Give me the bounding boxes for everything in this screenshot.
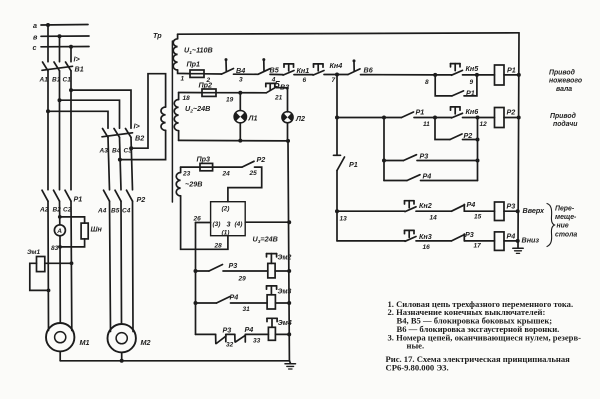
svg-text:Р3: Р3 bbox=[229, 261, 238, 270]
lamp return rail bbox=[179, 139, 290, 142]
ground symbol bottom bbox=[289, 361, 290, 364]
junction on phase b bbox=[58, 34, 62, 38]
junction aux column left bbox=[382, 116, 386, 120]
wire P4 row segment bbox=[421, 180, 478, 182]
electromagnet Em3 bbox=[267, 295, 275, 309]
node 13 bbox=[335, 209, 339, 213]
wire Em3 row segment bbox=[231, 302, 268, 304]
circuit breaker B1 tie bar bbox=[42, 66, 73, 70]
junction P3 row right bbox=[476, 159, 480, 163]
contact P3 NC in Kn3 row bbox=[452, 235, 465, 241]
junction coil P4 rail bbox=[516, 239, 520, 243]
wire row1 segment bbox=[270, 73, 283, 75]
wire to rectifier input top bbox=[228, 167, 262, 202]
transformer core bbox=[171, 41, 173, 202]
contact P3 in Em2 row bbox=[209, 265, 223, 272]
svg-text:29: 29 bbox=[238, 276, 247, 283]
limit switch B4 bbox=[225, 58, 228, 61]
wire C1 feed to B2 bbox=[71, 90, 131, 128]
svg-text:23: 23 bbox=[182, 171, 191, 178]
dc right rail bbox=[288, 141, 289, 361]
contactor P1 main pole 3 bbox=[65, 190, 71, 201]
wire Em2 row bbox=[196, 270, 210, 272]
wire motor M2 lead C bbox=[132, 201, 135, 331]
contact P1 self-hold bbox=[452, 91, 464, 96]
rectifier bridge U3 bbox=[211, 202, 246, 236]
wire shunt branch bbox=[60, 217, 85, 223]
wire M1 to bottom rail bbox=[59, 351, 61, 360]
junction lamp L1 bbox=[238, 91, 242, 95]
junction Em1 bottom bbox=[47, 289, 51, 293]
svg-text:18: 18 bbox=[183, 95, 191, 102]
electromagnet Em2 bbox=[268, 263, 275, 278]
door switch B3 bbox=[266, 82, 275, 84]
svg-text:Л1: Л1 bbox=[248, 114, 258, 123]
aux column right vertical bbox=[477, 140, 479, 181]
svg-text:(1): (1) bbox=[222, 230, 230, 237]
wire phase a drop bbox=[47, 25, 49, 62]
node 12 bbox=[476, 116, 480, 120]
wire column C3 below B2 bbox=[131, 137, 133, 190]
phase bus a bbox=[41, 24, 88, 27]
dc left rail bbox=[195, 223, 197, 335]
circuit breaker B2 tie bar bbox=[102, 133, 133, 137]
svg-text:9: 9 bbox=[470, 79, 474, 86]
wire coil P3 to rail bbox=[504, 210, 518, 212]
svg-text:Р4: Р4 bbox=[245, 325, 254, 334]
transformer secondary winding U1 bbox=[173, 39, 177, 70]
wire row1 to node 8 bbox=[361, 74, 436, 76]
svg-text:Эм2: Эм2 bbox=[278, 255, 292, 262]
svg-text:В5: В5 bbox=[270, 65, 280, 74]
junction on phase a bbox=[46, 23, 50, 27]
wire column A below B1 bbox=[47, 71, 49, 190]
contact P1 on rail bbox=[334, 154, 341, 156]
svg-text:21: 21 bbox=[274, 94, 283, 101]
bottom rail bbox=[60, 360, 289, 362]
wire P3 row bbox=[384, 160, 404, 162]
wire lamp L2 bottom bbox=[287, 123, 289, 141]
wire coil P4 to rail bbox=[504, 240, 518, 242]
svg-text:Кн4: Кн4 bbox=[330, 61, 343, 70]
contact P3 in Em4 row bbox=[215, 334, 217, 343]
fuse Pr2 bbox=[202, 89, 216, 96]
wire Kn3 row bbox=[337, 240, 405, 242]
wire motor M1 lead C bbox=[70, 201, 73, 330]
relay coil P3 bbox=[495, 202, 505, 221]
wire P1 self-hold return bbox=[464, 75, 477, 96]
contact P2 self-hold bbox=[450, 134, 462, 140]
svg-text:Р3: Р3 bbox=[223, 326, 232, 335]
svg-text:32: 32 bbox=[226, 342, 234, 349]
node 11 bbox=[433, 116, 437, 120]
svg-text:Кн1: Кн1 bbox=[297, 66, 310, 75]
wire motor M1 lead A bbox=[47, 201, 50, 330]
junction A1 to B2 feed bbox=[46, 109, 50, 113]
junction Em4 rail bbox=[287, 332, 291, 336]
junction C1 to B2 feed bbox=[69, 88, 73, 92]
svg-text:Тр: Тр bbox=[153, 31, 162, 40]
electromagnet Em4 bbox=[268, 327, 275, 340]
fuse Pr3 bbox=[200, 163, 213, 170]
wire motor M2 lead B bbox=[120, 201, 123, 324]
svg-text:Пр1: Пр1 bbox=[187, 60, 201, 69]
pushbutton Kn5 bbox=[451, 63, 461, 65]
wire P1 self-hold branch bbox=[435, 75, 452, 96]
wire Em3 to rail bbox=[275, 302, 289, 304]
wire 29V top tap bbox=[181, 166, 200, 168]
wire phase b drop bbox=[59, 36, 61, 62]
junction C3 to transformer bbox=[129, 146, 133, 150]
transformer secondary winding 29V bbox=[176, 173, 180, 196]
limit switch B5 bbox=[262, 58, 265, 61]
junction aux column right bbox=[476, 138, 480, 142]
wire U1 winding bottom to fuse row bbox=[178, 70, 190, 74]
svg-text:Кн5: Кн5 bbox=[466, 64, 480, 73]
contact P4 row bbox=[407, 175, 420, 181]
svg-text:U2~24В: U2~24В bbox=[185, 104, 210, 115]
wire P2 self-hold branch bbox=[435, 118, 450, 140]
svg-text:Л2: Л2 bbox=[295, 114, 305, 123]
circuit breaker B2 pole 3 bbox=[126, 129, 132, 138]
junction Em3 row left bbox=[194, 301, 198, 305]
wire to coil P4 bbox=[464, 240, 494, 242]
contact P1 in row2 bbox=[402, 112, 414, 118]
circuit breaker B2 pole 1 bbox=[103, 129, 109, 138]
wire motor M1 lead B lower bbox=[59, 236, 61, 323]
shunt Shn bbox=[81, 223, 88, 239]
svg-text:28: 28 bbox=[214, 243, 223, 250]
relay coil P2 bbox=[495, 108, 505, 128]
wire row1 segment bbox=[294, 74, 313, 76]
svg-text:33: 33 bbox=[253, 338, 261, 345]
wire U1 winding top to rail bbox=[177, 34, 179, 39]
contactor P2 main pole 2 bbox=[115, 190, 121, 201]
left relay rail upper bbox=[336, 75, 338, 156]
wire P3 row segment bbox=[417, 160, 478, 162]
circuit breaker B2 pole 2 bbox=[114, 129, 120, 138]
svg-text:U1~110В: U1~110В bbox=[184, 46, 213, 57]
brace table movement bbox=[547, 204, 555, 247]
right rail bbox=[518, 33, 519, 248]
wire column C below B1 bbox=[70, 71, 72, 190]
wire P4 row bbox=[384, 180, 407, 182]
wire shunt branch return bbox=[60, 239, 85, 247]
svg-text:24: 24 bbox=[222, 171, 231, 178]
lamp L1 bbox=[234, 111, 246, 123]
limit switch B6 bbox=[353, 59, 356, 62]
junction B4 to transformer bbox=[118, 158, 122, 162]
wire Kn3 row segment bbox=[416, 240, 452, 242]
wire motor M1 lead B upper bbox=[59, 201, 61, 225]
svg-text:Эм3: Эм3 bbox=[278, 289, 292, 296]
svg-text:6: 6 bbox=[303, 77, 307, 84]
junction shunt bottom bbox=[58, 245, 62, 249]
wire row1 segment bbox=[435, 74, 451, 76]
svg-text:(4): (4) bbox=[235, 221, 243, 228]
wire column B below B1 (to ammeter) bbox=[59, 71, 61, 190]
circuit breaker B1 pole 1 bbox=[43, 62, 49, 71]
contact P3 row bbox=[404, 155, 417, 161]
wire Em4 row segment bbox=[245, 333, 268, 335]
svg-text:19: 19 bbox=[226, 97, 234, 104]
svg-text:(3): (3) bbox=[213, 221, 221, 228]
junction Em1 top bbox=[70, 261, 74, 265]
contactor P2 main pole 3 bbox=[127, 190, 133, 201]
wire primary to B4 bbox=[120, 130, 166, 159]
wire Em1 branch lower bbox=[30, 263, 49, 290]
junction coil P2 rail bbox=[517, 116, 521, 120]
wire motor M2 lead A bbox=[110, 201, 111, 331]
pushbutton Kn4 bbox=[314, 63, 324, 65]
wire phase c drop bbox=[70, 47, 72, 62]
svg-text:26: 26 bbox=[193, 216, 202, 223]
wire B3 to lamp L2 bbox=[277, 88, 288, 112]
svg-text:3: 3 bbox=[239, 77, 243, 84]
wire row2 to coil bbox=[463, 117, 495, 119]
pushbutton Kn3 bbox=[405, 229, 415, 231]
wire B1 feed to B2 bbox=[60, 100, 120, 128]
contactor P2 main pole 1 bbox=[104, 190, 110, 201]
junction dc plus rail bbox=[287, 220, 291, 224]
contactor P1 main pole 2 bbox=[54, 190, 60, 201]
wire Em4 row left bbox=[196, 333, 216, 335]
circuit breaker B1 pole 3 bbox=[66, 62, 72, 71]
svg-text:U3=24В: U3=24В bbox=[253, 235, 278, 246]
wire Kn2 row bbox=[337, 210, 405, 212]
svg-text:3: 3 bbox=[227, 220, 231, 229]
wire rectifier minus output bbox=[196, 222, 211, 224]
svg-text:1: 1 bbox=[181, 76, 185, 83]
wire Em4 to rail bbox=[275, 333, 289, 335]
svg-text:Р2: Р2 bbox=[257, 155, 266, 164]
ammeter A bbox=[54, 225, 65, 236]
contactor P1 main pole 1 bbox=[42, 190, 48, 201]
wire Em1 branch upper bbox=[45, 262, 72, 264]
pushbutton Kn2 bbox=[405, 200, 415, 202]
motor M2 bbox=[108, 324, 136, 352]
phase bus c bbox=[41, 46, 89, 48]
wire 29V winding bottom to rectifier bbox=[181, 196, 228, 249]
wire rectifier plus output bbox=[245, 221, 289, 223]
circuit breaker B1 pole 2 bbox=[54, 62, 60, 71]
svg-text:8: 8 bbox=[425, 79, 429, 86]
junction B1 to B2 feed bbox=[58, 98, 62, 102]
wire Em2 row segment bbox=[223, 270, 268, 272]
junction on phase c bbox=[69, 45, 73, 49]
wire to lamp L1 bbox=[239, 93, 241, 111]
wire M2 to bottom rail bbox=[121, 352, 123, 360]
svg-text:Р1: Р1 bbox=[507, 66, 516, 75]
wire row2 segment bbox=[216, 92, 266, 94]
svg-text:Р4: Р4 bbox=[230, 293, 239, 302]
svg-text:Пр2: Пр2 bbox=[199, 81, 213, 90]
wire segment to P2 contact bbox=[213, 166, 242, 168]
wire P2 self-hold return bbox=[463, 118, 478, 140]
relay coil P1 bbox=[495, 65, 505, 85]
wire Em3 row bbox=[196, 302, 217, 304]
electromagnet Em1 bbox=[37, 257, 45, 272]
pushbutton Kn6 bbox=[451, 106, 461, 108]
aux column left vertical bbox=[383, 118, 385, 181]
wire to coil P3 bbox=[464, 210, 494, 212]
wire U2 top tap bbox=[179, 92, 202, 94]
junction shunt top bbox=[58, 215, 62, 219]
contact P4 in Em4 row bbox=[234, 334, 236, 341]
junction P3 row left bbox=[382, 159, 386, 163]
ground symbol right rail bbox=[513, 247, 523, 249]
pushbutton Kn1 bbox=[284, 63, 294, 65]
svg-text:Эм4: Эм4 bbox=[278, 320, 292, 327]
wire column B4 below B2 bbox=[120, 137, 122, 190]
node 8 bbox=[433, 73, 437, 77]
wire coil P2 to rail bbox=[504, 117, 519, 119]
wire row1 segment bbox=[324, 74, 348, 76]
junction coil P3 rail bbox=[516, 209, 520, 213]
wire Kn2 row segment bbox=[416, 210, 452, 212]
wire coil P1 to rail bbox=[504, 74, 519, 76]
junction coil P1 rail bbox=[517, 73, 521, 77]
wire between contacts bbox=[226, 333, 235, 335]
lamp L2 bbox=[282, 112, 293, 123]
motor M1 bbox=[46, 323, 74, 351]
transformer primary winding bbox=[161, 107, 166, 130]
node 9 bbox=[475, 73, 479, 77]
top rail 110V bbox=[178, 33, 519, 34]
junction M2 bottom bbox=[120, 359, 124, 363]
wire row2 segment bbox=[414, 117, 452, 119]
junction row2 left bbox=[335, 116, 339, 120]
relay coil P4 bbox=[495, 232, 505, 251]
wire A1 feed to B2 bbox=[48, 111, 108, 128]
junction Em2 row left bbox=[194, 269, 198, 273]
wire row1 segment bbox=[234, 73, 259, 75]
junction Em2 rail bbox=[287, 269, 291, 273]
svg-text:~29В: ~29В bbox=[185, 180, 202, 189]
transformer secondary winding U2 bbox=[174, 100, 178, 131]
svg-text:(2): (2) bbox=[222, 206, 230, 213]
junction L2 return / dc riser bbox=[286, 139, 290, 143]
junction L1 return bbox=[238, 139, 242, 143]
wire lamp L1 bottom bbox=[239, 123, 241, 141]
fuse Pr1 bbox=[190, 70, 204, 77]
junction Em3 rail bbox=[287, 301, 291, 305]
contact P2 in 29V circuit bbox=[242, 161, 254, 167]
svg-text:7: 7 bbox=[332, 77, 336, 84]
wire Em2 to rail bbox=[275, 270, 289, 272]
node 7 bbox=[335, 73, 339, 77]
wire C3 to primary bbox=[131, 74, 165, 149]
svg-text:В6: В6 bbox=[364, 65, 374, 74]
left relay rail lower bbox=[336, 171, 338, 241]
svg-text:Пр3: Пр3 bbox=[197, 155, 211, 164]
wire row1 segment bbox=[204, 73, 222, 75]
svg-text:25: 25 bbox=[249, 170, 258, 177]
wire row2 bbox=[337, 117, 402, 119]
contact P4 in Em3 row bbox=[217, 297, 231, 304]
contact P4 NC in Kn2 row bbox=[452, 205, 465, 211]
wire column A3 below B2 bbox=[108, 137, 110, 190]
phase bus b bbox=[41, 35, 89, 37]
svg-text:31: 31 bbox=[243, 306, 251, 313]
